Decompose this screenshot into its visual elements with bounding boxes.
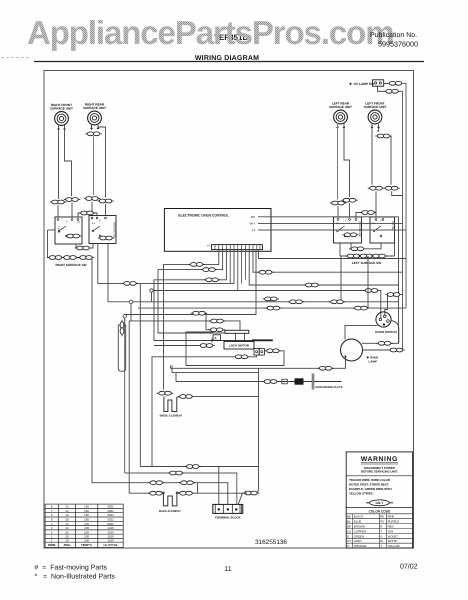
oven lamp switch SW1 [349,80,384,86]
wire strip pin 4 run [154,250,226,341]
warning box [346,452,412,548]
connector inside LR switch [342,233,358,237]
wire lock bottom drop [152,357,235,467]
connector [257,270,273,274]
connector [64,198,80,202]
wire SU right-rear left lead [91,124,93,130]
wire to switch [337,206,339,217]
wire jog to vertical [390,136,391,185]
connector [85,132,101,136]
wire strip pin right run 2 [253,250,403,273]
wire to switch [71,203,73,218]
wire junction A drop [151,292,153,302]
svg-text:RIGHT SURFACE SW: RIGHT SURFACE SW [55,263,86,267]
svg-text:AppliancePartsPros.com: AppliancePartsPros.com [27,14,393,51]
wire SU right-front right lead [65,124,72,196]
svg-text:SURFACE UNIT: SURFACE UNIT [329,105,352,109]
wire second return [172,365,259,372]
wire connector stub [270,299,272,302]
connector [341,198,357,202]
wire switch drop to lamp run [340,256,342,302]
svg-text:CU: CU [347,529,351,533]
svg-text:P: P [67,221,69,224]
svg-text:W: W [380,539,383,543]
svg-text:SURFACE UNIT: SURFACE UNIT [83,106,106,110]
connector [179,481,195,485]
svg-text:P: P [345,220,347,223]
connector [148,481,164,485]
wire branch down to bake [128,321,130,493]
wire broil right to bus [192,396,258,398]
connector [304,283,320,287]
svg-text:WIRE: WIRE [48,543,56,547]
wire bottom row left [48,230,93,258]
wire to door switch left pin [379,291,381,319]
svg-text:P1: P1 [207,245,211,248]
connector [317,366,333,370]
svg-text:BL: BL [347,520,351,524]
svg-text:GREEN: GREEN [354,534,364,538]
svg-text:TERMINAL BLOCK: TERMINAL BLOCK [215,515,242,519]
connector on jog [375,134,391,138]
wire broil right [177,396,180,398]
svg-text:GN-Y: GN-Y [376,501,385,505]
lock cam bar [225,330,249,333]
wire door switch top pin feed [385,295,388,316]
connector [50,200,66,204]
wire to switch [57,205,59,217]
svg-text:Publication No.: Publication No. [370,31,417,39]
color code table [346,508,412,548]
svg-text:UL STYLE: UL STYLE [104,543,118,547]
wire lamp switch upper [384,83,388,85]
svg-text:YELLOW STRIPE.: YELLOW STRIPE. [349,492,374,496]
connector row r2 [358,254,374,258]
svg-text:PU: PU [380,520,384,524]
wire strip pin 2 run [164,250,219,390]
connector lamp top [376,341,392,345]
svg-text:LAMP: LAMP [369,360,378,364]
connector [185,465,201,469]
wire bake right [177,492,180,494]
svg-text:# = Fast-moving Parts: # = Fast-moving Parts [35,564,108,572]
connector [188,263,204,267]
wire lamp return down right side [247,368,259,493]
svg-text:GY: GY [347,539,351,543]
infinite switch right-rear [89,216,116,244]
svg-text:BR: BR [347,525,351,529]
surface unit left rear [329,102,352,124]
connector on plate wire [262,380,278,384]
connector on right link [360,211,376,215]
connector lock right [265,349,281,353]
svg-text:L1: L1 [252,228,256,232]
wire L1 from EOC [258,229,406,231]
svg-text:AWG: AWG [63,543,71,547]
broil element [160,396,183,417]
connector row r3 [371,254,387,258]
connector [363,289,379,293]
wire to switch [375,191,377,217]
wire BK from EOC [258,217,399,302]
wire feed to bus [400,294,403,296]
wire LR bottom to connector [349,243,351,249]
wire strip pin 3 run [158,250,225,333]
wire lock right wrap [186,332,284,366]
tracer example symbol GN-Y [366,500,393,506]
svg-text:RED: RED [388,525,394,529]
wire SU right-front left lead [58,124,60,199]
connector [265,306,281,310]
svg-text:T: T [380,529,382,533]
lock lever line [204,339,273,343]
connector bake left [148,491,164,495]
wire run y321 [129,321,240,330]
wire lock bar left feed [206,313,225,330]
svg-text:L2: L2 [77,221,80,224]
svg-text:P: P [380,220,382,223]
connector below right switches [349,247,365,251]
lock switch small box [213,335,221,341]
wire run y308 [138,307,406,309]
wire door switch right to lamp line [391,321,399,344]
svg-text:YELLOW: YELLOW [388,544,400,548]
svg-text:COPPER: COPPER [354,529,366,533]
infinite switch left-rear [334,217,362,243]
svg-text:WH: WH [250,222,255,226]
svg-text:VIOLET: VIOLET [388,534,399,538]
svg-text:BROWN: BROWN [354,525,365,529]
svg-text:BROIL ELEMENT: BROIL ELEMENT [160,413,183,417]
svg-text:BLUE: BLUE [354,520,362,524]
connector lock bottom [233,355,249,359]
svg-text:Y: Y [380,544,382,548]
connector [122,282,138,286]
wire bake feed left [129,492,150,494]
svg-text:NOTED FIRST, STRIPE NEXT.: NOTED FIRST, STRIPE NEXT. [349,483,389,487]
connector [201,268,217,272]
wire into terminal block right [238,493,247,504]
svg-text:* = Non-Illustrated Parts: * = Non-Illustrated Parts [35,573,116,581]
connector [209,319,225,323]
svg-text:#: # [215,336,217,340]
connector row 2 [62,256,78,260]
wire SU left-rear left lead [337,123,339,200]
wire row left end up [339,243,341,256]
EOC connector strip P1 [207,245,263,250]
svg-text:✱: ✱ [349,82,352,86]
wire lock loop U [118,325,125,371]
wire lock-left connector feed [154,345,200,347]
connector on lamp switch upper wire [387,81,403,85]
wire bake right run [192,483,247,494]
bake element [159,492,181,513]
svg-text:INFINITE SW: INFINITE SW [113,222,116,238]
svg-text:GREY: GREY [354,539,362,543]
infinite switch right-front [55,217,82,244]
wire lamp feed run [133,302,399,344]
wire to switch [105,204,107,216]
connector [204,278,220,282]
wire lamp switch lower [378,86,385,91]
wire junction B drop [130,304,132,321]
connector row r1 [345,254,361,258]
svg-text:BK: BK [347,515,351,519]
wire SU left-front left lead [371,124,373,185]
svg-text:ORANGE: ORANGE [354,544,367,548]
wire WH from EOC [258,222,403,224]
wire oven lamp bottom drop [170,358,345,369]
svg-text:OV LAMP SW: OV LAMP SW [354,82,374,86]
svg-text:WARNING: WARNING [361,456,398,463]
svg-text:LOCK MOTOR: LOCK MOTOR [229,344,250,348]
wire to switch [91,202,93,216]
wire run y313 [125,250,256,315]
connector bake right [178,491,194,495]
junction node B [129,300,132,303]
svg-text:5995376000: 5995376000 [378,40,418,49]
surface unit right rear [83,103,106,125]
svg-text:COLOR CODE: COLOR CODE [369,509,391,513]
wire switch drop to run308 [367,256,369,308]
wire lamp lower to bus [400,91,403,350]
connector on lamp feed run [329,300,345,304]
connector broil top [157,391,173,395]
wire SU right-rear right lead [98,124,106,198]
svg-text:BK: BK [251,215,255,219]
connector door right feed [385,293,401,297]
wire from connector to RR switch [91,244,93,249]
wire lock bottom to connector [248,355,257,357]
wire branch down from 283 run [139,283,141,466]
svg-text:INF SW: INF SW [391,221,394,231]
connector [388,348,404,352]
svg-text:R: R [380,525,382,529]
svg-text:EXAMPLE: GREEN WIRE WITH: EXAMPLE: GREEN WIRE WITH [349,487,392,491]
wire SU left-rear right lead [344,123,350,198]
wire from RF switch bottom to connector [75,244,76,248]
wire bottom run 2 [125,473,237,504]
connector on lock bar feed [208,328,224,332]
connector inside RR switch [98,236,114,240]
connector inside RF switch [65,234,81,238]
wire strip pin drops [230,250,245,291]
svg-text:TAN: TAN [388,529,394,533]
connector [84,197,100,201]
wire stub into switch [48,229,56,231]
connector [168,471,184,475]
svg-text:ELECTRONIC OVEN CONTROL: ELECTRONIC OVEN CONTROL [178,214,228,218]
svg-text:BAKE ELEMENT: BAKE ELEMENT [159,509,181,513]
svg-text:1015: 1015 [107,539,114,543]
connector [330,201,346,205]
wire drop to terminal 1 from run1 [218,467,220,505]
svg-text:L1 H1: L1 H1 [57,226,60,233]
wire to switch [349,203,351,217]
svg-text:316255136: 316255136 [255,539,287,546]
svg-text:07/02: 07/02 [400,563,418,571]
wire bottom run 1 [140,466,258,468]
wire loop tie [124,318,126,325]
svg-text:SURFACE UNIT: SURFACE UNIT [50,107,73,111]
wire connector to LF switch [366,243,381,249]
svg-text:PK: PK [380,515,384,519]
svg-text:TEMP°C: TEMP°C [81,543,93,547]
wire lamp switch upper to bus [403,83,406,308]
connector on lamp feed run left [288,300,304,304]
connector row 3 [78,256,94,260]
svg-text:PURPLE: PURPLE [388,520,400,524]
svg-text:P: P [99,220,101,223]
wire plate feed [176,373,281,382]
connector [191,311,207,315]
svg-text:G: G [347,534,350,538]
connector on lamp switch lower wire [384,89,400,93]
svg-text:L1: L1 [92,222,95,225]
svg-text:LEFT SURFACE SW: LEFT SURFACE SW [352,261,381,265]
svg-text:GROUNDING PLATE: GROUNDING PLATE [315,385,342,389]
junction node A [150,289,153,292]
wire bottom row right [340,255,395,257]
connector [368,186,384,190]
connector [263,297,279,301]
connector [97,199,113,203]
connector right on run [353,306,369,310]
wire door switch feed run [153,290,377,292]
electronic oven control EOC [164,209,271,252]
terminal pins left switches [57,217,106,220]
connector on loop leg [120,320,124,336]
terminal pins right switches [337,219,384,221]
terminal block TB [213,504,243,519]
wire SU left-front right lead [377,124,378,131]
lock motor M1 [224,342,254,350]
svg-text:TRACER WIRE: WIRE COLOR: TRACER WIRE: WIRE COLOR [349,478,391,482]
wire link between left switches [78,213,97,217]
wire junction C drop to bottom [124,318,126,473]
surface unit left front [364,102,387,124]
wire into bake [162,492,163,494]
wire link between right switches [356,213,376,218]
wire lead to bus [392,191,403,195]
svg-text:BLACK: BLACK [354,515,364,519]
wire strip pin right run 1 [259,250,407,259]
lead arrowheads [57,125,380,129]
infinite switch left-front [370,217,395,243]
svg-text:105: 105 [84,539,89,543]
junction node C [123,315,126,318]
connector lock left [198,344,214,348]
grounding plate [281,374,342,390]
svg-text:WHITE: WHITE [388,539,397,543]
svg-text:SURFACE UNIT: SURFACE UNIT [364,105,387,109]
wire door switch bottom pin left [345,325,378,339]
connector broil right [178,395,194,399]
connector on link [79,211,95,215]
surface unit right front [50,103,73,125]
diagram frame [44,71,414,549]
wire strip pin right run 3 [249,250,398,285]
oven lamp [341,339,379,364]
wire left switches to center [98,244,234,284]
svg-text:10: 10 [65,539,69,543]
wire continue [93,137,95,196]
wire switch L2 to lamp run [108,244,129,302]
wire row right end up [394,243,396,256]
svg-text:BEFORE SERVICING UNIT.: BEFORE SERVICING UNIT. [361,470,398,474]
wire gauge table [45,504,123,547]
connector [384,186,400,190]
lock micro switch contacts [254,349,264,356]
svg-text:PINK: PINK [388,515,395,519]
connector below left switches [75,246,91,250]
svg-text:V: V [380,534,382,538]
wire left switches long drop [92,258,228,505]
wire oven lamp right [363,349,403,351]
connector row 1 [47,256,63,260]
svg-text:DOOR SWITCH: DOOR SWITCH [375,330,397,334]
svg-text:11: 11 [224,566,231,573]
door switch [375,312,397,334]
connector [243,491,259,495]
title underline [34,61,424,63]
faint margin dashes [1,57,30,59]
